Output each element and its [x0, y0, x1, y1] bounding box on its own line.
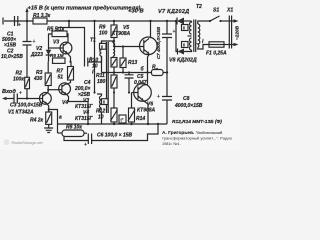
svg-text:трансформаторный усилит...". Р: трансформаторный усилит...". Радио	[162, 136, 232, 141]
ground	[44, 124, 53, 132]
resistor R12 thermistor	[111, 108, 117, 122]
svg-text:+: +	[19, 91, 22, 97]
svg-text:S1: S1	[213, 8, 219, 14]
svg-text:+: +	[157, 94, 160, 100]
wire V3 emitter down	[68, 53, 71, 61]
wire V6 collector	[143, 84, 147, 87]
label T1 winding II bottom	[102, 99, 109, 105]
svg-text:R4 2к: R4 2к	[30, 118, 44, 124]
wire R5 feed bracket	[58, 21, 85, 58]
svg-text:II: II	[183, 43, 185, 48]
svg-text:F1 0,25А: F1 0,25А	[206, 51, 227, 57]
svg-text:X1: X1	[226, 8, 233, 14]
svg-text:10: 10	[92, 64, 98, 70]
svg-text:430: 430	[33, 76, 43, 82]
svg-text:КТ315Г: КТ315Г	[75, 116, 94, 122]
output node line	[102, 72, 152, 74]
bottom rail	[58, 124, 168, 133]
resistor R2	[25, 77, 30, 88]
svg-text:II: II	[183, 26, 185, 31]
wire V5 emitter to output	[148, 54, 150, 84]
resistor R11	[111, 75, 117, 88]
svg-text:51: 51	[58, 75, 64, 81]
wire top rail right of diode V7	[184, 20, 192, 22]
capacitor C7	[166, 20, 168, 22]
resistor Rn	[152, 70, 164, 76]
svg-text:+: +	[173, 29, 176, 35]
resistor R10	[111, 58, 117, 68]
label II bottom	[182, 42, 189, 48]
wire primary bottom to fuse	[198, 45, 209, 50]
transistor V6	[134, 84, 152, 102]
svg-text:t°: t°	[121, 118, 124, 123]
wire V6 base	[132, 92, 139, 94]
winding T2 secondary bottom	[190, 38, 192, 50]
wire V1 collector	[47, 90, 48, 94]
svg-text:T2: T2	[196, 4, 202, 10]
svg-text:100к: 100к	[13, 77, 24, 83]
resistor R8	[58, 132, 63, 134]
wire V4 emitter	[66, 94, 88, 124]
capacitor C8	[162, 73, 172, 125]
svg-text:V1 КТ342А: V1 КТ342А	[8, 110, 34, 116]
svg-text:а: а	[59, 115, 62, 121]
resistor R13	[122, 45, 124, 47]
node +15V arrow	[26, 20, 28, 22]
winding T1 left bottom	[97, 94, 102, 124]
wire primary top to switch	[198, 21, 210, 24]
input arrow	[6, 98, 14, 100]
svg-text:V4: V4	[62, 100, 68, 106]
resistor R9	[113, 20, 115, 22]
capacitor C1	[15, 16, 18, 26]
wire top rail	[4, 20, 177, 22]
wire V6 emitter	[144, 101, 149, 124]
svg-text:RadioStorage.net: RadioStorage.net	[12, 140, 44, 145]
svg-text:Д223: Д223	[30, 52, 43, 58]
resistor R6	[53, 58, 66, 63]
wire V5 base	[114, 41, 144, 47]
svg-text:V7 КД202Д: V7 КД202Д	[158, 9, 189, 15]
label T1 winding II top	[100, 43, 107, 49]
transistor V5	[140, 37, 158, 55]
arrow X1 bottom	[234, 43, 239, 47]
resistor R1	[33, 18, 47, 24]
fuse F1	[209, 42, 224, 47]
svg-text:+: +	[18, 23, 21, 29]
wire V5 collector	[149, 20, 151, 22]
capacitor C4	[85, 56, 102, 67]
wire V4 base	[48, 89, 62, 91]
svg-text:T1: T1	[90, 38, 96, 44]
svg-text:V3: V3	[53, 40, 59, 46]
transistor V4	[59, 83, 71, 95]
svg-text:R12,R14 ММТ-13Б (Ф): R12,R14 ММТ-13Б (Ф)	[172, 119, 222, 125]
label II top	[182, 25, 189, 31]
winding T1 right	[113, 41, 115, 58]
thermal box t	[119, 115, 126, 123]
svg-text:С7 4000,0×15В: С7 4000,0×15В	[156, 26, 161, 59]
node R5 feed	[68, 20, 70, 22]
diode V8	[175, 20, 177, 22]
capacitor C3	[14, 94, 43, 104]
svg-text:С6 100,0 × 15В: С6 100,0 × 15В	[97, 133, 133, 139]
svg-text:+15 В (к цепи питания предусил: +15 В (к цепи питания предусилителя)	[28, 6, 141, 12]
svg-text:~220В: ~220В	[235, 25, 241, 40]
node R7 tap	[69, 61, 71, 63]
svg-text:R6 1М: R6 1М	[50, 53, 64, 58]
input terminal	[2, 18, 4, 25]
svg-text:С8: С8	[183, 96, 190, 102]
svg-text:4000,0×15В: 4000,0×15В	[174, 103, 203, 109]
svg-text:R13: R13	[128, 60, 137, 66]
svg-text:1981г. №1.: 1981г. №1.	[162, 142, 181, 146]
svg-text:КТ908А: КТ908А	[112, 31, 131, 37]
svg-text:II: II	[101, 44, 103, 49]
transistor V1	[40, 93, 52, 105]
transistor V3	[60, 42, 72, 54]
svg-text:КТ908А: КТ908А	[137, 108, 156, 114]
capacitor C5	[125, 73, 134, 93]
diode V7	[176, 18, 178, 25]
switch S1	[209, 20, 211, 22]
svg-text:100: 100	[99, 31, 108, 37]
svg-text:II: II	[103, 100, 105, 105]
winding T1 left top	[100, 41, 114, 73]
svg-text:R14: R14	[136, 116, 145, 122]
svg-text:V8 КД202Д: V8 КД202Д	[169, 58, 197, 64]
resistor R4	[47, 104, 49, 112]
svg-text:С3 100,0×15В: С3 100,0×15В	[10, 103, 43, 109]
wire T1 base-line feed	[93, 20, 95, 22]
arrow X1 top	[234, 19, 239, 23]
resistor R3	[47, 62, 49, 73]
svg-text:+30 В: +30 В	[128, 9, 144, 15]
transformer T1 core	[107, 42, 109, 113]
svg-text:+: +	[33, 39, 36, 45]
wire V2 chain	[49, 34, 53, 50]
center tap	[188, 35, 192, 37]
svg-text:180: 180	[97, 79, 106, 85]
capacitor C6	[88, 124, 158, 144]
winding T2 secondary top	[190, 21, 192, 34]
resistor R14 thermistor	[131, 93, 133, 109]
svg-text:+: +	[84, 142, 87, 148]
diode V2	[46, 50, 52, 55]
connector X1	[229, 16, 231, 49]
wire R5 to V3 collector	[67, 21, 69, 43]
resistor R7	[70, 62, 72, 67]
credit text	[162, 130, 232, 146]
transformer T2 core	[194, 20, 196, 53]
winding T2 primary	[198, 24, 200, 48]
resistor R5	[52, 31, 67, 37]
svg-text:10: 10	[98, 115, 104, 121]
capacitor C2	[23, 21, 32, 99]
svg-text:10,0×25В: 10,0×25В	[1, 54, 23, 60]
watermark	[4, 139, 44, 145]
